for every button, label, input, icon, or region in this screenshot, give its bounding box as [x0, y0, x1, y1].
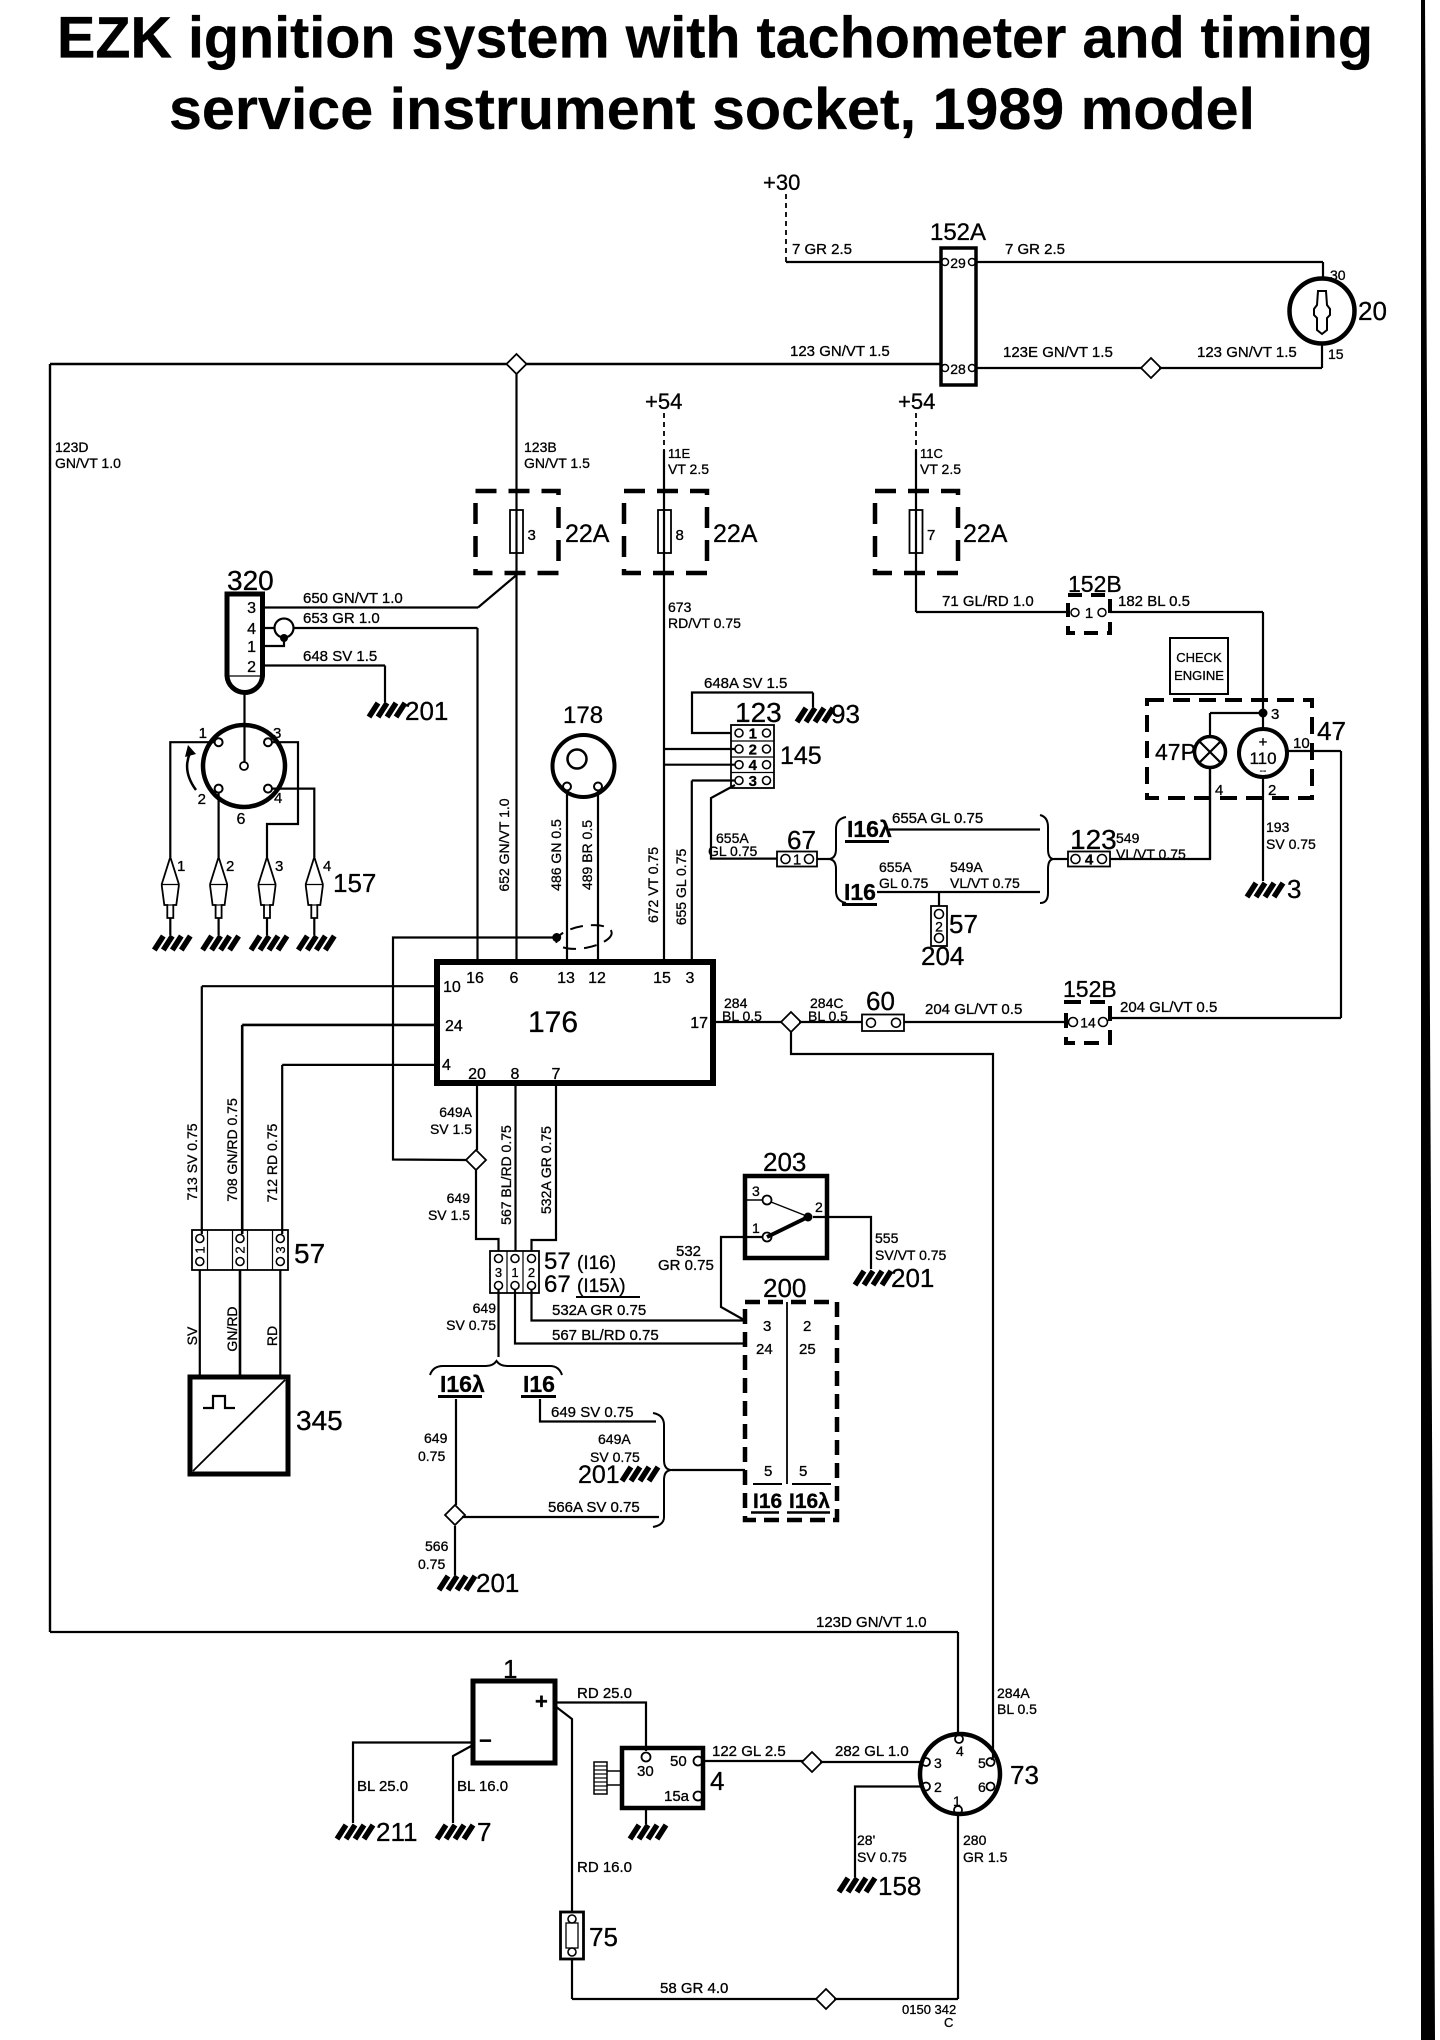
svg-text:(I15λ): (I15λ): [577, 1276, 626, 1297]
svg-text:28': 28': [857, 1832, 875, 1848]
svg-text:123: 123: [735, 697, 782, 728]
svg-text:24: 24: [445, 1018, 463, 1035]
svg-text:2: 2: [226, 858, 234, 875]
svg-text:I16: I16: [523, 1371, 555, 1397]
svg-text:73: 73: [1010, 1760, 1039, 1790]
svg-text:RD 16.0: RD 16.0: [577, 1859, 632, 1876]
svg-text:1: 1: [511, 1265, 518, 1280]
svg-text:17: 17: [690, 1015, 708, 1032]
svg-text:I16λ: I16λ: [847, 816, 892, 842]
svg-text:1: 1: [177, 858, 185, 875]
svg-text:123: 123: [1070, 824, 1117, 855]
svg-text:648 SV 1.5: 648 SV 1.5: [303, 648, 377, 665]
svg-text:93: 93: [831, 699, 860, 729]
svg-text:655A: 655A: [879, 859, 912, 875]
svg-text:2: 2: [233, 1246, 248, 1253]
svg-text:655A GL 0.75: 655A GL 0.75: [892, 810, 983, 827]
svg-text:549: 549: [1116, 830, 1140, 846]
svg-text:3: 3: [495, 1265, 502, 1280]
svg-text:655 GL 0.75: 655 GL 0.75: [673, 849, 689, 926]
svg-text:RD: RD: [264, 1326, 280, 1346]
svg-text:650 GN/VT 1.0: 650 GN/VT 1.0: [303, 590, 403, 607]
svg-text:14: 14: [1080, 1015, 1096, 1031]
svg-text:3: 3: [273, 725, 281, 742]
svg-text:649 SV 0.75: 649 SV 0.75: [551, 1404, 634, 1421]
svg-text:28: 28: [950, 361, 966, 377]
svg-text:GN/VT 1.5: GN/VT 1.5: [524, 455, 590, 471]
svg-text:649: 649: [447, 1190, 471, 1206]
svg-text:EZK ignition system with tacho: EZK ignition system with tachometer and …: [57, 6, 1373, 71]
svg-text:3: 3: [763, 1318, 771, 1335]
svg-text:I16λ: I16λ: [789, 1490, 830, 1513]
svg-text:1: 1: [199, 725, 207, 742]
svg-text:1: 1: [247, 639, 256, 656]
svg-text:SV 0.75: SV 0.75: [857, 1849, 907, 1865]
svg-text:0.75: 0.75: [418, 1448, 445, 1464]
svg-text:122 GL 2.5: 122 GL 2.5: [712, 1743, 786, 1760]
svg-text:649: 649: [424, 1430, 448, 1446]
svg-text:567 BL/RD 0.75: 567 BL/RD 0.75: [552, 1327, 659, 1344]
svg-text:123B: 123B: [524, 439, 557, 455]
svg-text:GL 0.75: GL 0.75: [879, 875, 929, 891]
svg-text:152A: 152A: [930, 219, 986, 246]
svg-text:4: 4: [274, 790, 282, 807]
svg-text:555: 555: [875, 1230, 899, 1246]
svg-text:6: 6: [510, 970, 519, 987]
svg-text:30: 30: [1330, 267, 1346, 283]
svg-text:211: 211: [376, 1817, 417, 1847]
svg-text:6: 6: [237, 811, 246, 828]
svg-text:345: 345: [296, 1405, 343, 1436]
svg-text:3: 3: [275, 858, 283, 875]
svg-text:BL 25.0: BL 25.0: [357, 1778, 408, 1795]
svg-text:6: 6: [978, 1779, 986, 1795]
svg-text:4: 4: [749, 757, 758, 774]
svg-text:1: 1: [953, 1793, 961, 1809]
svg-text:7 GR 2.5: 7 GR 2.5: [1005, 241, 1065, 258]
svg-text:7: 7: [477, 1817, 491, 1847]
svg-text:11C: 11C: [920, 446, 943, 461]
svg-text:123 GN/VT 1.5: 123 GN/VT 1.5: [1197, 344, 1297, 361]
svg-text:193: 193: [1266, 819, 1290, 835]
svg-text:VT 2.5: VT 2.5: [668, 461, 709, 477]
svg-text:4: 4: [247, 621, 256, 638]
svg-text:47: 47: [1317, 716, 1346, 746]
svg-text:GN/RD: GN/RD: [224, 1306, 240, 1351]
svg-text:+54: +54: [645, 389, 682, 414]
svg-text:24: 24: [756, 1341, 773, 1358]
svg-text:204 GL/VT 0.5: 204 GL/VT 0.5: [925, 1001, 1022, 1018]
svg-text:176: 176: [528, 1006, 578, 1039]
svg-text:67: 67: [787, 825, 816, 855]
svg-text:RD/VT 0.75: RD/VT 0.75: [668, 615, 741, 631]
svg-text:30: 30: [637, 1763, 654, 1780]
svg-text:8: 8: [676, 527, 684, 544]
svg-text:201: 201: [405, 696, 448, 726]
svg-text:15: 15: [1328, 346, 1344, 362]
svg-text:4: 4: [1215, 782, 1223, 799]
svg-text:7: 7: [552, 1066, 561, 1083]
svg-text:649A: 649A: [439, 1104, 472, 1120]
svg-text:486 GN 0.5: 486 GN 0.5: [548, 819, 564, 891]
svg-text:2: 2: [198, 791, 206, 808]
svg-text:672 VT 0.75: 672 VT 0.75: [645, 847, 661, 923]
svg-text:4: 4: [956, 1743, 964, 1759]
svg-text:567 BL/RD 0.75: 567 BL/RD 0.75: [498, 1125, 514, 1225]
svg-text:532A GR 0.75: 532A GR 0.75: [538, 1126, 554, 1214]
svg-text:123E GN/VT 1.5: 123E GN/VT 1.5: [1003, 344, 1113, 361]
svg-text:+54: +54: [898, 389, 935, 414]
svg-text:652 GN/VT 1.0: 652 GN/VT 1.0: [496, 798, 512, 891]
svg-text:GN/VT 1.0: GN/VT 1.0: [55, 455, 121, 471]
svg-text:2: 2: [247, 659, 256, 676]
svg-text:SV 1.5: SV 1.5: [428, 1207, 470, 1223]
svg-text:SV 0.75: SV 0.75: [446, 1317, 496, 1333]
svg-text:C: C: [944, 2015, 953, 2030]
svg-text:(I16): (I16): [577, 1253, 616, 1274]
svg-text:SV 0.75: SV 0.75: [1266, 836, 1316, 852]
svg-text:8: 8: [511, 1066, 520, 1083]
svg-text:I16λ: I16λ: [440, 1371, 485, 1397]
svg-text:157: 157: [333, 868, 376, 898]
svg-text:1: 1: [1085, 605, 1093, 622]
svg-text:2: 2: [749, 742, 757, 759]
svg-text:3: 3: [273, 1246, 288, 1253]
svg-text:713 SV 0.75: 713 SV 0.75: [184, 1123, 200, 1200]
svg-text:152B: 152B: [1063, 976, 1117, 1002]
svg-text:282 GL 1.0: 282 GL 1.0: [835, 1743, 909, 1760]
svg-text:−: −: [479, 1728, 492, 1753]
svg-text:284A: 284A: [997, 1685, 1030, 1701]
svg-text:1: 1: [749, 726, 757, 743]
svg-text:GR 0.75: GR 0.75: [658, 1257, 714, 1274]
svg-text:3: 3: [934, 1755, 942, 1771]
svg-text:22A: 22A: [565, 520, 610, 548]
svg-text:178: 178: [563, 702, 603, 729]
svg-text:3: 3: [686, 970, 695, 987]
svg-text:203: 203: [763, 1147, 806, 1177]
svg-text:2: 2: [815, 1199, 823, 1215]
svg-text:0.75: 0.75: [418, 1556, 445, 1572]
svg-text:649A: 649A: [598, 1431, 631, 1447]
svg-text:201: 201: [476, 1568, 519, 1598]
svg-text:VL/VT 0.75: VL/VT 0.75: [1116, 846, 1186, 862]
svg-text:1: 1: [192, 1246, 207, 1253]
svg-text:BL 16.0: BL 16.0: [457, 1778, 508, 1795]
svg-text:123D GN/VT 1.0: 123D GN/VT 1.0: [816, 1614, 927, 1631]
svg-text:3: 3: [749, 773, 757, 790]
svg-text:22A: 22A: [713, 520, 758, 548]
svg-text:I16: I16: [844, 879, 876, 905]
svg-text:200: 200: [763, 1273, 806, 1303]
svg-text:2: 2: [1268, 782, 1276, 799]
svg-text:320: 320: [227, 565, 274, 596]
svg-text:673: 673: [668, 599, 692, 615]
svg-text:7 GR 2.5: 7 GR 2.5: [792, 241, 852, 258]
svg-text:RD 25.0: RD 25.0: [577, 1685, 632, 1702]
svg-text:57: 57: [294, 1238, 325, 1269]
svg-text:15a: 15a: [664, 1788, 690, 1805]
svg-text:549A: 549A: [950, 859, 983, 875]
svg-text:708 GN/RD 0.75: 708 GN/RD 0.75: [224, 1098, 240, 1202]
svg-text:158: 158: [878, 1871, 921, 1901]
svg-text:22A: 22A: [963, 520, 1008, 548]
svg-text:GL 0.75: GL 0.75: [708, 843, 758, 859]
svg-text:2: 2: [934, 1779, 942, 1795]
svg-text:57: 57: [949, 909, 978, 939]
svg-text:29: 29: [950, 255, 966, 271]
svg-text:20: 20: [1358, 296, 1387, 326]
svg-text:566: 566: [425, 1538, 449, 1554]
svg-text:4: 4: [710, 1766, 724, 1796]
svg-text:BL 0.5: BL 0.5: [808, 1008, 848, 1024]
svg-text:20: 20: [468, 1066, 486, 1083]
svg-text:7: 7: [927, 527, 935, 544]
svg-text:2: 2: [528, 1265, 535, 1280]
svg-text:4: 4: [442, 1057, 451, 1074]
svg-text:GR 1.5: GR 1.5: [963, 1849, 1008, 1865]
svg-text:3: 3: [528, 527, 536, 544]
svg-text:1: 1: [503, 1654, 517, 1684]
svg-text:VL/VT 0.75: VL/VT 0.75: [950, 875, 1020, 891]
svg-text:5: 5: [978, 1755, 986, 1771]
svg-text:712 RD 0.75: 712 RD 0.75: [264, 1123, 280, 1202]
svg-text:--: --: [1260, 766, 1267, 777]
svg-text:201: 201: [578, 1461, 620, 1489]
svg-text:I16: I16: [753, 1490, 782, 1513]
svg-text:12: 12: [588, 970, 606, 987]
svg-text:204 GL/VT 0.5: 204 GL/VT 0.5: [1120, 999, 1217, 1016]
svg-text:123 GN/VT 1.5: 123 GN/VT 1.5: [790, 343, 890, 360]
svg-text:SV/VT 0.75: SV/VT 0.75: [875, 1247, 947, 1263]
svg-text:10: 10: [1293, 735, 1310, 752]
svg-text:145: 145: [780, 742, 822, 770]
svg-text:71 GL/RD 1.0: 71 GL/RD 1.0: [942, 593, 1034, 610]
svg-text:VT 2.5: VT 2.5: [920, 461, 961, 477]
svg-text:4: 4: [323, 858, 331, 875]
svg-text:2: 2: [803, 1318, 811, 1335]
svg-text:1: 1: [752, 1220, 760, 1236]
svg-text:3: 3: [1287, 874, 1301, 904]
svg-text:BL 0.5: BL 0.5: [722, 1008, 762, 1024]
svg-text:58 GR 4.0: 58 GR 4.0: [660, 1980, 728, 1997]
svg-text:25: 25: [799, 1341, 816, 1358]
svg-text:CHECK: CHECK: [1176, 650, 1222, 665]
svg-text:+: +: [535, 1689, 548, 1714]
svg-text:SV: SV: [184, 1326, 200, 1345]
svg-text:10: 10: [443, 979, 461, 996]
svg-text:ENGINE: ENGINE: [1174, 668, 1224, 683]
svg-text:67: 67: [544, 1271, 571, 1298]
svg-text:280: 280: [963, 1832, 987, 1848]
svg-text:3: 3: [752, 1183, 760, 1199]
svg-text:3: 3: [247, 600, 256, 617]
svg-text:16: 16: [466, 970, 484, 987]
svg-text:2: 2: [935, 919, 943, 935]
svg-text:566A SV 0.75: 566A SV 0.75: [548, 1499, 640, 1516]
svg-text:47P: 47P: [1155, 739, 1196, 765]
svg-text:+30: +30: [763, 170, 800, 195]
svg-text:60: 60: [866, 986, 895, 1016]
svg-text:service instrument socket, 198: service instrument socket, 1989 model: [169, 77, 1255, 142]
svg-text:15: 15: [653, 970, 671, 987]
svg-text:13: 13: [557, 970, 575, 987]
svg-text:3: 3: [1271, 706, 1279, 723]
svg-text:152B: 152B: [1068, 571, 1122, 597]
svg-text:5: 5: [764, 1463, 772, 1480]
svg-text:649: 649: [473, 1300, 497, 1316]
svg-text:5: 5: [799, 1463, 807, 1480]
svg-text:532A GR 0.75: 532A GR 0.75: [552, 1302, 646, 1319]
svg-text:50: 50: [670, 1753, 687, 1770]
svg-text:204: 204: [921, 941, 964, 971]
svg-text:BL 0.5: BL 0.5: [997, 1701, 1037, 1717]
svg-text:489 BR 0.5: 489 BR 0.5: [579, 820, 595, 890]
svg-text:SV 1.5: SV 1.5: [430, 1121, 472, 1137]
svg-text:648A SV 1.5: 648A SV 1.5: [704, 675, 787, 692]
svg-text:11E: 11E: [668, 446, 690, 461]
svg-text:201: 201: [891, 1263, 934, 1293]
svg-text:182 BL 0.5: 182 BL 0.5: [1118, 593, 1190, 610]
svg-text:75: 75: [589, 1922, 618, 1952]
svg-text:653 GR 1.0: 653 GR 1.0: [303, 610, 380, 627]
svg-text:123D: 123D: [55, 439, 88, 455]
